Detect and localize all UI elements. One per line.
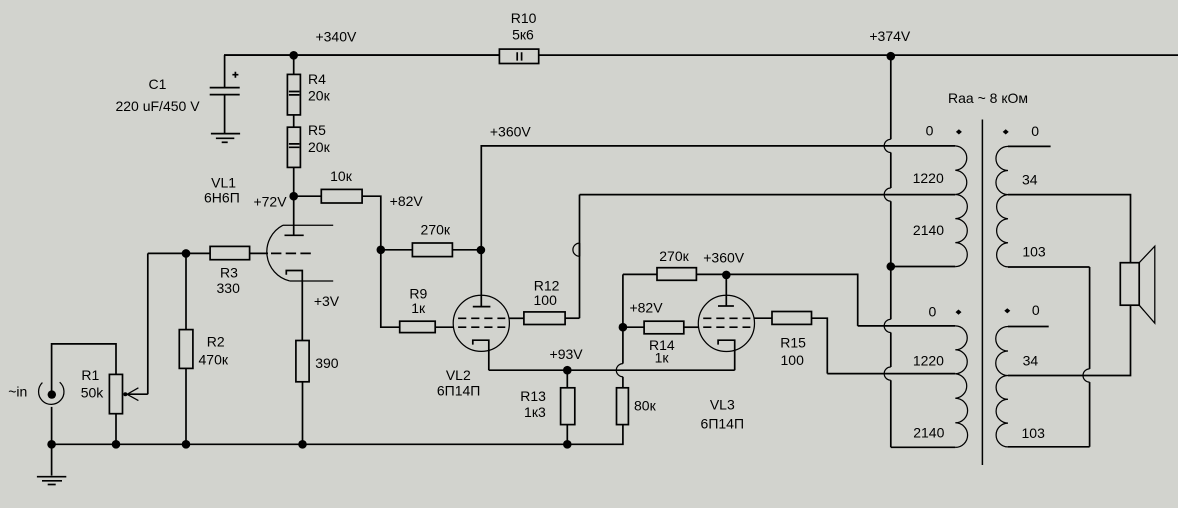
svg-text:20к: 20к	[308, 139, 331, 155]
svg-text:VL2: VL2	[446, 367, 471, 383]
svg-text:C1: C1	[149, 76, 167, 92]
svg-text:+93V: +93V	[550, 346, 584, 362]
svg-text:34: 34	[1022, 172, 1038, 188]
svg-text:Raa ~ 8 кОм: Raa ~ 8 кОм	[948, 90, 1028, 106]
svg-text:VL1: VL1	[211, 175, 236, 191]
svg-text:34: 34	[1023, 352, 1039, 368]
svg-text:270к: 270к	[421, 221, 451, 237]
svg-text:330: 330	[217, 280, 241, 296]
svg-text:R10: R10	[511, 10, 537, 26]
svg-text:20к: 20к	[308, 88, 331, 104]
svg-text:0: 0	[929, 304, 937, 320]
svg-text:10к: 10к	[330, 168, 353, 184]
svg-text:~in: ~in	[8, 384, 27, 400]
svg-text:470к: 470к	[199, 352, 229, 368]
svg-text:1220: 1220	[913, 170, 944, 186]
svg-text:220 uF/450 V: 220 uF/450 V	[115, 98, 200, 114]
svg-text:6П14П: 6П14П	[437, 382, 480, 398]
svg-text:103: 103	[1022, 425, 1046, 441]
svg-text:50k: 50k	[81, 385, 105, 401]
svg-text:100: 100	[534, 292, 558, 308]
svg-text:+72V: +72V	[253, 194, 287, 210]
svg-text:VL3: VL3	[710, 397, 735, 413]
svg-text:1к3: 1к3	[524, 404, 546, 420]
svg-text:270к: 270к	[659, 248, 689, 264]
svg-text:R4: R4	[308, 71, 326, 87]
svg-text:+374V: +374V	[869, 28, 911, 44]
svg-text:+3V: +3V	[314, 293, 340, 309]
svg-text:+360V: +360V	[703, 250, 745, 266]
svg-text:2140: 2140	[913, 222, 944, 238]
svg-text:+82V: +82V	[629, 300, 663, 316]
svg-text:+340V: +340V	[315, 29, 357, 45]
svg-text:+82V: +82V	[390, 193, 424, 209]
svg-text:5к6: 5к6	[512, 27, 534, 43]
svg-text:2140: 2140	[913, 424, 944, 440]
svg-text:0: 0	[1031, 123, 1039, 139]
svg-text:390: 390	[315, 355, 339, 371]
svg-text:R2: R2	[207, 334, 225, 350]
svg-text:0: 0	[926, 123, 934, 139]
svg-text:R13: R13	[520, 388, 546, 404]
svg-text:1к: 1к	[655, 349, 670, 365]
svg-text:103: 103	[1022, 243, 1046, 259]
svg-text:+360V: +360V	[490, 123, 532, 139]
svg-text:1к: 1к	[411, 300, 426, 316]
svg-text:R3: R3	[220, 265, 238, 281]
svg-text:6П14П: 6П14П	[701, 416, 744, 432]
svg-text:1220: 1220	[913, 353, 944, 369]
svg-text:R5: R5	[308, 122, 326, 138]
svg-text:0: 0	[1032, 302, 1040, 318]
svg-text:6Н6П: 6Н6П	[204, 189, 240, 205]
svg-text:80к: 80к	[634, 398, 657, 414]
svg-text:100: 100	[781, 352, 805, 368]
svg-text:R1: R1	[81, 367, 99, 383]
svg-text:R15: R15	[780, 334, 806, 350]
